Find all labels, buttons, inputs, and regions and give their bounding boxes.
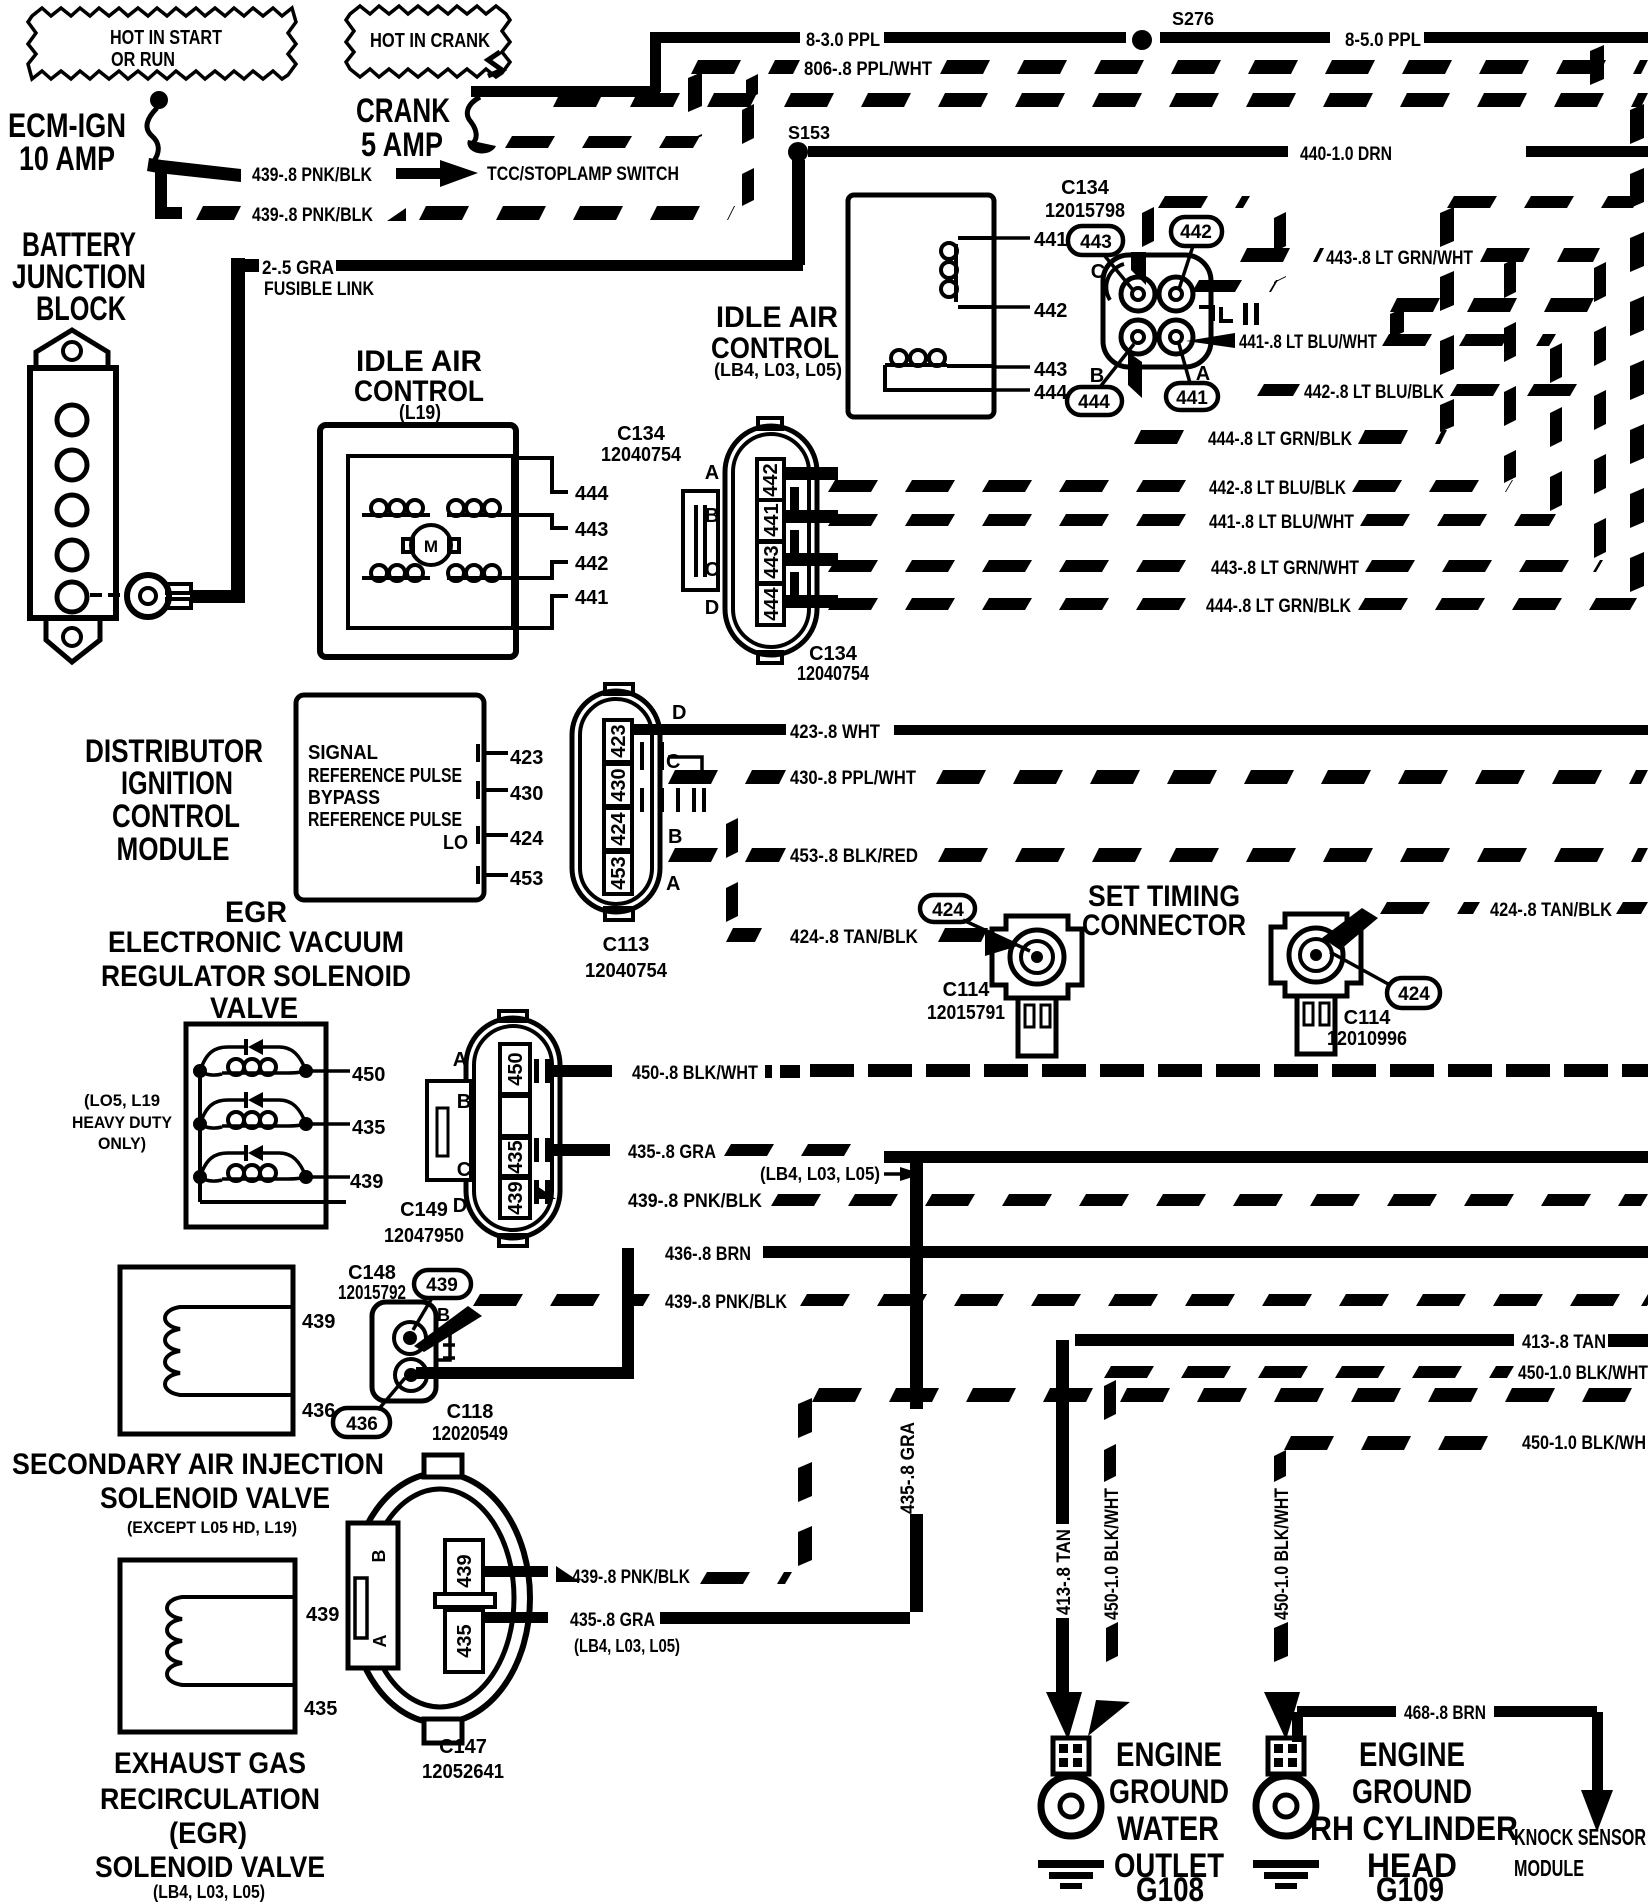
label (LO5 L19 HEAVY DUTY ONLY): [72, 1091, 173, 1153]
wire 443-.8 LT GRN/WHT long (y566): [828, 558, 1603, 579]
IAC LB4 coil horizontal: [885, 350, 994, 390]
label pin 423: [510, 747, 543, 769]
staircase vertical x1447: [1440, 207, 1454, 432]
label 2-.5 GRA: [262, 258, 334, 279]
label pin 443 (LB4): [1034, 359, 1067, 381]
svg-text:440-1.0 DRN: 440-1.0 DRN: [1300, 144, 1392, 165]
label pin 435: [352, 1117, 385, 1139]
wire 453-.8 BLK/RED: [668, 846, 1648, 867]
wire 423-.8 WHT: [634, 722, 1648, 743]
label pin 442 (LB4): [1034, 300, 1067, 322]
connector C113 (4-pin): [572, 684, 706, 920]
svg-text:423-.8 WHT: 423-.8 WHT: [790, 722, 880, 743]
svg-text:C118: C118: [447, 1401, 494, 1423]
wire 439 wedge from C118: [414, 1306, 482, 1352]
ring terminal (fusible link): [127, 575, 191, 617]
wire pin442 dashes (y286): [1192, 280, 1278, 292]
wire 806-.8 PPL/WHT dashed (y67): [691, 59, 1648, 80]
wire S153 vertical down: [792, 160, 805, 265]
svg-text:REFERENCE PULSE: REFERENCE PULSE: [308, 765, 462, 787]
svg-text:KNOCK SENSOR: KNOCK SENSOR: [1514, 1824, 1646, 1850]
IAC L19 coil lower-right: [447, 565, 507, 581]
svg-text:C147: C147: [439, 1736, 487, 1758]
svg-text:D: D: [453, 1195, 467, 1217]
wire 435 GRA vertical: [910, 1152, 923, 1612]
label C134 12015798: [1045, 177, 1125, 222]
IAC LB4 pin stubs: [994, 238, 1030, 390]
svg-text:442-.8 LT BLU/BLK: 442-.8 LT BLU/BLK: [1304, 382, 1444, 403]
label pin 439 (SAI): [302, 1311, 335, 1333]
label EXHAUST GAS RECIRCULATION (EGR) SOLENOID VALVE: [95, 1747, 325, 1902]
wire 439 corner up at x748: [742, 104, 754, 206]
label pin 439 (EVRV): [350, 1171, 383, 1193]
wire dashed row y100: [553, 93, 1648, 107]
svg-text:439: 439: [454, 1554, 476, 1587]
IAC L19 coil lower-left: [362, 565, 430, 581]
DIC text REFERENCE PULSE 2: [308, 809, 462, 831]
svg-text:SOLENOID VALVE: SOLENOID VALVE: [100, 1482, 330, 1515]
svg-text:D: D: [672, 702, 686, 724]
svg-text:435: 435: [454, 1624, 476, 1657]
wire vertical x655 up to PPL line: [650, 33, 661, 92]
svg-text:413-.8 TAN: 413-.8 TAN: [1054, 1529, 1075, 1615]
label FUSIBLE LINK: [264, 279, 374, 300]
svg-text:439: 439: [306, 1604, 339, 1626]
staircase vertical x1510: [1504, 258, 1516, 483]
svg-text:B: B: [369, 1550, 389, 1563]
connector C134 (LB4) face: [1103, 252, 1259, 398]
svg-text:SIGNAL: SIGNAL: [308, 742, 378, 764]
wire row y305 dashed: [1390, 298, 1594, 312]
svg-text:12040754: 12040754: [585, 960, 668, 982]
label pin letter B: [1090, 365, 1104, 387]
svg-text:12040754: 12040754: [797, 663, 870, 685]
svg-text:HOT IN START: HOT IN START: [110, 27, 222, 49]
DIC text LO: [443, 832, 468, 854]
wire 2-.5 GRA fusible link: [231, 258, 803, 597]
svg-text:12040754: 12040754: [601, 444, 682, 466]
svg-text:S276: S276: [1172, 9, 1214, 29]
svg-text:424: 424: [1398, 984, 1430, 1005]
svg-text:G108: G108: [1136, 1871, 1204, 1902]
IAC LB4 box: [848, 195, 994, 417]
svg-text:413-.8 TAN: 413-.8 TAN: [1522, 1332, 1606, 1353]
wire from face top to row202: [1142, 207, 1154, 247]
label pin letter C (C149): [457, 1159, 471, 1181]
svg-text:RECIRCULATION: RECIRCULATION: [100, 1783, 320, 1816]
svg-text:439: 439: [302, 1311, 335, 1333]
svg-text:B: B: [668, 826, 682, 848]
label pin 436 (SAI): [302, 1400, 335, 1422]
wire 444-.8 LT GRN/BLK (y437): [1134, 429, 1447, 450]
label IDLE AIR CONTROL (LB4): [711, 301, 842, 380]
dashed link block to ring: [90, 593, 120, 597]
svg-text:ONLY): ONLY): [98, 1134, 146, 1153]
label pin letter C (C113): [666, 751, 680, 773]
svg-text:(LB4, L03, L05): (LB4, L03, L05): [574, 1636, 680, 1656]
svg-text:5 AMP: 5 AMP: [361, 126, 443, 164]
svg-text:444: 444: [761, 586, 783, 620]
svg-text:12015791: 12015791: [927, 1002, 1005, 1024]
svg-text:EXHAUST GAS: EXHAUST GAS: [114, 1747, 306, 1780]
svg-text:443-.8 LT GRN/WHT: 443-.8 LT GRN/WHT: [1211, 558, 1359, 579]
label ENGINE GROUND WATER OUTLET G108: [1109, 1736, 1229, 1902]
wire 440-1.0 DRN (y152): [808, 144, 1648, 165]
wire crank dashed to 806 elbow (y142): [505, 72, 702, 148]
fuse ECM-IGN 10 AMP label: [8, 107, 126, 178]
connector C114 left: [992, 916, 1082, 1056]
svg-text:C: C: [666, 751, 680, 773]
svg-text:424-.8 TAN/BLK: 424-.8 TAN/BLK: [790, 927, 918, 948]
svg-text:439: 439: [426, 1275, 458, 1296]
IAC LB4 coil vertical: [941, 238, 994, 307]
label 450-1.0 BLK/WHT rotated left: [1102, 1488, 1123, 1620]
wire 413 arrow into G108: [1046, 1692, 1082, 1740]
wire row y202 dashed: [1158, 196, 1640, 208]
svg-text:(EGR): (EGR): [169, 1817, 247, 1850]
label pin 443: [575, 519, 608, 541]
svg-text:435: 435: [505, 1140, 527, 1173]
label 439-.8 PNK/BLK row1: [252, 165, 372, 186]
connector C134 (L19 4-pin): [683, 418, 838, 663]
battery junction block: [30, 330, 116, 662]
wire 450-1.0 BLK/WHT row1: [1104, 1363, 1648, 1384]
label pin letter A (C149): [453, 1049, 467, 1071]
wire 439 stub (C147): [483, 1566, 548, 1577]
svg-text:MODULE: MODULE: [1514, 1855, 1584, 1881]
label C147 12052641: [422, 1736, 504, 1783]
svg-text:C: C: [1091, 261, 1105, 283]
svg-text:C134: C134: [809, 643, 858, 665]
svg-text:806-.8 PPL/WHT: 806-.8 PPL/WHT: [804, 59, 932, 80]
svg-text:441-.8 LT BLU/WHT: 441-.8 LT BLU/WHT: [1239, 332, 1377, 353]
svg-text:430: 430: [608, 768, 630, 801]
svg-text:443: 443: [761, 545, 783, 578]
svg-text:8-5.0 PPL: 8-5.0 PPL: [1345, 30, 1421, 51]
svg-text:(LB4, L03, L05): (LB4, L03, L05): [714, 360, 842, 380]
label pin 424: [510, 828, 544, 850]
svg-text:444: 444: [1034, 382, 1068, 404]
label pin letter A: [1196, 363, 1210, 385]
svg-text:REGULATOR SOLENOID: REGULATOR SOLENOID: [101, 960, 411, 993]
label pin 453: [510, 868, 543, 890]
wire 435 stub (C147): [483, 1612, 548, 1623]
svg-text:439: 439: [350, 1171, 383, 1193]
DIC text BYPASS: [308, 787, 380, 809]
wedge 424 wire into C114 right: [1322, 908, 1378, 950]
label 413-.8 TAN rotated: [1054, 1529, 1075, 1615]
svg-text:C134: C134: [1061, 177, 1110, 199]
IAC L19 coil upper-right: [447, 500, 507, 517]
wire 441-.8 LT BLU/WHT (y340): [1186, 332, 1556, 353]
svg-text:450: 450: [505, 1052, 527, 1085]
label pin letter C: [1091, 261, 1105, 283]
label 8-3.0 PPL: [806, 30, 880, 51]
svg-text:(LO5, L19: (LO5, L19: [84, 1091, 160, 1110]
IAC L19 pin 443 elbow: [507, 515, 568, 528]
IAC L19 pin 441 elbow: [513, 596, 568, 628]
svg-text:A: A: [370, 1635, 390, 1648]
svg-text:442-.8 LT BLU/BLK: 442-.8 LT BLU/BLK: [1209, 478, 1346, 499]
svg-text:D: D: [705, 597, 719, 619]
label C149 12047950: [384, 1199, 464, 1247]
svg-text:435-.8 GRA: 435-.8 GRA: [898, 1422, 919, 1514]
connector C147: [348, 1455, 530, 1743]
label pin 450: [352, 1064, 385, 1086]
svg-text:(EXCEPT L05 HD, L19): (EXCEPT L05 HD, L19): [127, 1518, 297, 1537]
svg-text:(LB4, L03, L05): (LB4, L03, L05): [760, 1164, 880, 1184]
svg-text:441: 441: [1176, 388, 1208, 409]
wire 439 vertical + elbow: [155, 165, 182, 219]
staircase vertical x1637: [1630, 104, 1644, 592]
EGR EVRV box: [186, 1024, 326, 1227]
svg-text:442: 442: [1034, 300, 1067, 322]
wire 441-.8 LT BLU/WHT long (y520): [828, 512, 1556, 533]
arrow to TCC/STOPLAMP SWITCH: [396, 160, 478, 187]
svg-text:MODULE: MODULE: [117, 831, 230, 867]
wire 435-.8 GRA: [552, 1142, 1648, 1163]
label C118 12020549: [432, 1401, 508, 1445]
tag 424 left: [920, 895, 1030, 951]
svg-text:430-.8 PPL/WHT: 430-.8 PPL/WHT: [790, 768, 916, 789]
wire 8-5.0 PPL solid: [1160, 30, 1648, 51]
svg-text:DISTRIBUTOR: DISTRIBUTOR: [85, 733, 263, 769]
label pin letter D (C149): [453, 1195, 467, 1217]
tag 444: [1067, 344, 1134, 415]
svg-text:435: 435: [304, 1698, 337, 1720]
svg-text:439-.8 PNK/BLK: 439-.8 PNK/BLK: [252, 165, 372, 186]
svg-text:444-.8 LT GRN/BLK: 444-.8 LT GRN/BLK: [1206, 596, 1351, 617]
svg-text:424: 424: [510, 828, 544, 850]
svg-text:12052641: 12052641: [422, 1761, 504, 1783]
EGR solenoid coil: [167, 1597, 295, 1685]
power box HOT IN CRANK: [346, 6, 510, 77]
svg-text:CONTROL: CONTROL: [112, 798, 240, 834]
svg-text:12047950: 12047950: [384, 1225, 464, 1247]
svg-text:12015798: 12015798: [1045, 200, 1125, 222]
wire 439 vertical x805: [798, 1398, 812, 1566]
svg-text:443: 443: [1034, 359, 1067, 381]
svg-text:BYPASS: BYPASS: [308, 787, 380, 809]
svg-text:G109: G109: [1376, 1871, 1444, 1902]
label pin 439 (EGR): [306, 1604, 339, 1626]
label KNOCK SENSOR MODULE: [1514, 1824, 1646, 1881]
svg-text:S153: S153: [788, 123, 830, 143]
svg-text:C134: C134: [617, 423, 666, 445]
staircase vertical x1556: [1550, 343, 1562, 511]
IAC L19 motor M: [403, 525, 459, 565]
label pin 444: [575, 483, 609, 505]
svg-text:443: 443: [575, 519, 608, 541]
SAI coil: [165, 1307, 293, 1395]
svg-text:C148: C148: [348, 1262, 396, 1284]
IAC L19 pin 442 elbow: [507, 562, 568, 578]
svg-text:468-.8 BRN: 468-.8 BRN: [1404, 1703, 1486, 1724]
wire 439-.8 PNK/BLK (C149): [537, 1186, 1648, 1212]
label C134 12040754 (lower): [797, 643, 870, 685]
IAC L19 coil upper-left: [362, 500, 430, 517]
svg-text:443: 443: [1080, 232, 1112, 253]
svg-text:IDLE AIR: IDLE AIR: [356, 345, 482, 378]
wire 442-.8 LT BLU/BLK (y390): [1257, 382, 1577, 403]
wire 413-.8 TAN row: [1075, 1332, 1648, 1353]
svg-text:C114: C114: [1344, 1007, 1392, 1029]
svg-text:439-.8 PNK/BLK: 439-.8 PNK/BLK: [665, 1292, 787, 1313]
svg-text:439-.8 PNK/BLK: 439-.8 PNK/BLK: [572, 1567, 690, 1588]
wire 413 vertical: [1056, 1340, 1069, 1692]
svg-text:441: 441: [575, 587, 608, 609]
svg-text:C114: C114: [943, 979, 991, 1001]
svg-text:436: 436: [346, 1414, 378, 1435]
EGR EVRV internals (3 coils+diodes): [193, 1039, 350, 1202]
svg-text:450-1.0 BLK/WHT: 450-1.0 BLK/WHT: [1272, 1488, 1293, 1620]
wire 439 PNK/BLK from ECM-IGN fuse (tapered): [147, 158, 241, 182]
SAI box: [120, 1267, 293, 1434]
tag 439 (C118): [413, 1270, 471, 1330]
DIC pin stubs: [478, 744, 508, 884]
svg-text:SOLENOID VALVE: SOLENOID VALVE: [95, 1851, 325, 1884]
svg-text:CONNECTOR: CONNECTOR: [1082, 909, 1246, 942]
label 450-1.0 BLK/WHT rotated right: [1272, 1488, 1293, 1620]
splice S153: [788, 123, 830, 162]
svg-text:441: 441: [1034, 229, 1067, 251]
svg-text:444-.8 LT GRN/BLK: 444-.8 LT GRN/BLK: [1208, 429, 1352, 450]
wire ring to GRA vertical: [190, 590, 245, 603]
wire 424-.8 TAN/BLK: [790, 927, 988, 948]
wire 468 to knock sensor: [1581, 1712, 1613, 1832]
label DISTRIBUTOR IGNITION CONTROL MODULE: [85, 733, 263, 867]
svg-text:435: 435: [352, 1117, 385, 1139]
wire 435-.8 GRA (C147 row): [570, 1610, 910, 1656]
wire 439 PNK/BLK dashed row (y213): [196, 205, 735, 226]
wire 8-3.0 PPL solid (y38): [650, 32, 1126, 43]
svg-text:OR RUN: OR RUN: [111, 49, 175, 71]
tag 424 right: [1330, 952, 1440, 1008]
wire 439 row y1395 dashed: [812, 1388, 1632, 1402]
IAC L19 inner rect: [348, 456, 513, 628]
label pin letter D (C113): [672, 702, 686, 724]
svg-text:IDLE AIR: IDLE AIR: [716, 301, 838, 334]
wire branch corner x752: [746, 74, 758, 100]
connector C114 right: [1271, 914, 1361, 1054]
svg-text:435-.8 GRA: 435-.8 GRA: [628, 1142, 716, 1163]
svg-text:424: 424: [608, 811, 630, 845]
wire 450 wedge into G108: [1088, 1700, 1130, 1736]
svg-text:A: A: [453, 1049, 467, 1071]
svg-text:C149: C149: [400, 1199, 448, 1221]
label ENGINE GROUND RH CYLINDER HEAD G109: [1310, 1736, 1518, 1902]
label pin letter B (C149): [457, 1091, 471, 1113]
svg-text:450-1.0 BLK/WHT: 450-1.0 BLK/WHT: [1102, 1488, 1123, 1620]
ground terminal G108: [1038, 1738, 1104, 1889]
svg-text:450-.8 BLK/WHT: 450-.8 BLK/WHT: [632, 1063, 758, 1084]
svg-text:442: 442: [1180, 222, 1212, 243]
svg-text:10 AMP: 10 AMP: [19, 140, 115, 178]
wire 439-.8 PNK/BLK (C118 row): [473, 1292, 1648, 1313]
svg-text:453: 453: [510, 868, 543, 890]
svg-text:(L19): (L19): [399, 402, 441, 424]
wire 450-.8 BLK/WHT: [552, 1063, 1648, 1084]
wire 430-.8 PPL/WHT: [668, 768, 1648, 789]
svg-text:B: B: [705, 505, 719, 527]
svg-text:SECONDARY AIR INJECTION: SECONDARY AIR INJECTION: [12, 1448, 384, 1481]
splice S276: [1132, 9, 1214, 50]
label BATTERY JUNCTION BLOCK: [12, 226, 146, 328]
label C114 12015791: [927, 979, 1005, 1024]
label C134 12040754 (upper): [601, 423, 682, 466]
fuse CRANK symbol: [467, 52, 502, 153]
wire stub top right corner: [1590, 45, 1604, 85]
connector C149 (4-pin): [427, 1011, 560, 1246]
svg-text:C113: C113: [603, 934, 650, 956]
svg-text:442: 442: [575, 553, 608, 575]
svg-text:435-.8 GRA: 435-.8 GRA: [570, 1610, 655, 1631]
label SET TIMING CONNECTOR: [1082, 880, 1246, 942]
svg-text:2-.5 GRA: 2-.5 GRA: [262, 258, 334, 279]
svg-text:443-.8 LT GRN/WHT: 443-.8 LT GRN/WHT: [1326, 248, 1473, 269]
svg-text:423: 423: [510, 747, 543, 769]
tag 443: [1068, 226, 1133, 290]
connector C118: [372, 1302, 455, 1401]
svg-text:REFERENCE PULSE: REFERENCE PULSE: [308, 809, 462, 831]
wire 424-.8 TAN/BLK right: [1380, 900, 1648, 921]
svg-text:450: 450: [352, 1064, 385, 1086]
EGR solenoid box: [120, 1560, 295, 1732]
label C113 12040754: [585, 934, 668, 982]
svg-text:EGR: EGR: [225, 896, 287, 929]
svg-text:441: 441: [761, 503, 783, 536]
svg-text:ENGINE: ENGINE: [1359, 1736, 1465, 1774]
svg-text:439: 439: [505, 1181, 527, 1214]
label 435-.8 GRA rotated: [898, 1422, 919, 1514]
label pin 430: [510, 783, 543, 805]
svg-text:450-1.0 BLK/WHT: 450-1.0 BLK/WHT: [1518, 1363, 1648, 1384]
svg-text:A: A: [705, 462, 719, 484]
label IDLE AIR CONTROL (L19): [354, 345, 484, 424]
svg-text:RH CYLINDER: RH CYLINDER: [1310, 1810, 1518, 1848]
svg-text:439-.8 PNK/BLK: 439-.8 PNK/BLK: [628, 1191, 762, 1212]
svg-text:ENGINE: ENGINE: [1116, 1736, 1222, 1774]
wire crank fuse to vertical (y92): [471, 86, 660, 97]
tag 441: [1166, 344, 1218, 410]
wire 468-.8 BRN: [1292, 1703, 1597, 1742]
svg-text:FUSIBLE LINK: FUSIBLE LINK: [264, 279, 374, 300]
label (LB4 L03 L05) + arrow: [760, 1164, 922, 1184]
wire 436-.8 BRN: [665, 1244, 1648, 1265]
fuse ECM-IGN symbol: [147, 91, 168, 161]
wire 450-1.0 BLK/WH row2: [1284, 1433, 1646, 1454]
tag 442: [1171, 217, 1222, 289]
staircase vertical x1397: [1390, 308, 1404, 338]
wire 450 vertical left: [1104, 1380, 1118, 1662]
wire 424 elbow down: [726, 818, 762, 942]
svg-text:423: 423: [608, 724, 630, 757]
tag 436 (C118): [333, 1378, 405, 1437]
DIC text SIGNAL: [308, 742, 378, 764]
svg-text:439-.8 PNK/BLK: 439-.8 PNK/BLK: [252, 205, 373, 226]
wire 436 solid from C118: [416, 1248, 634, 1379]
svg-text:WATER: WATER: [1117, 1810, 1219, 1848]
wire 439-.8 PNK/BLK (C147 row): [556, 1566, 792, 1588]
svg-text:444: 444: [575, 483, 609, 505]
svg-text:450-1.0 BLK/WH: 450-1.0 BLK/WH: [1522, 1433, 1646, 1454]
svg-text:453: 453: [608, 856, 630, 889]
label C148 12015792: [338, 1262, 406, 1304]
label pin 441: [575, 587, 608, 609]
power box HOT IN START OR RUN: [28, 8, 296, 79]
wire 443-.8 LT GRN/WHT (y255): [1240, 248, 1600, 269]
wire wedge into C114 left: [985, 930, 1018, 956]
